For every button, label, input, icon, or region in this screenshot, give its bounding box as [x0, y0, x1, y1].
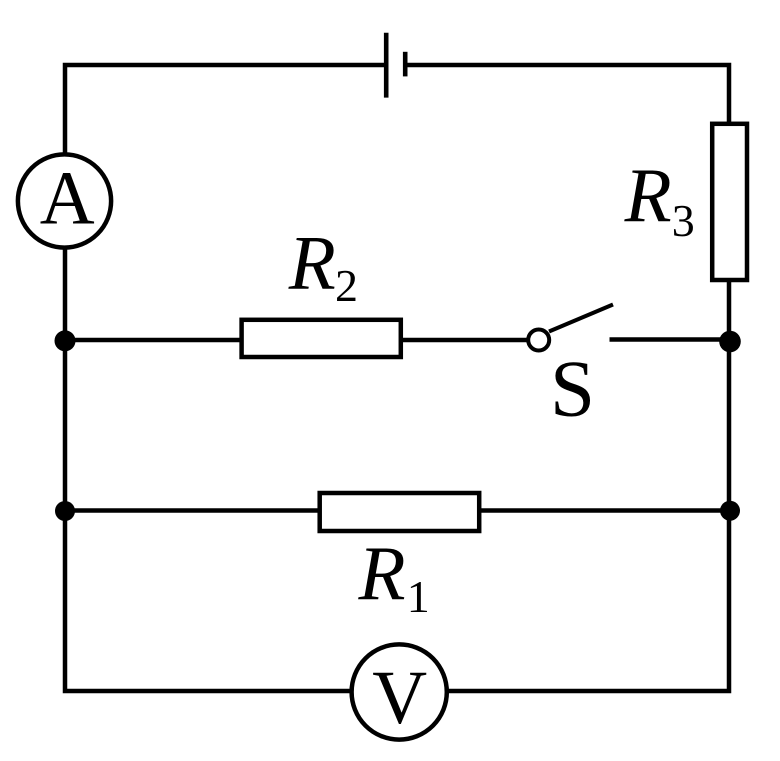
node junction dot: right middle	[719, 331, 741, 353]
svg-text:A: A	[40, 157, 95, 241]
switch S arm (open)	[549, 305, 613, 332]
wire: bottom from voltmeter to bottom-right corner, right vertical up to R3 bottom	[447, 280, 729, 691]
svg-text:R: R	[288, 220, 336, 306]
svg-text:V: V	[372, 656, 427, 740]
wire: top-right horizontal from battery to right vertical, down to R3 top	[405, 65, 729, 124]
voltmeter U-V circle	[352, 644, 447, 739]
resistor R1 body	[320, 493, 480, 531]
node junction dot: right lower	[720, 501, 740, 521]
node junction dot: left middle	[55, 330, 76, 351]
battery short plate (negative)	[403, 52, 408, 77]
resistor R2 body	[242, 320, 401, 357]
svg-text:R: R	[358, 530, 406, 616]
svg-text:R: R	[624, 152, 672, 238]
ammeter U-A circle	[18, 154, 111, 247]
wire: top-left horizontal (battery negative lead) and left vertical down to ammeter	[65, 65, 386, 156]
svg-text:3: 3	[672, 195, 695, 246]
svg-text:1: 1	[407, 571, 430, 622]
switch S pivot circle	[528, 330, 549, 351]
wire: lower branch through R1 between nodes	[65, 508, 729, 513]
svg-text:S: S	[550, 344, 595, 434]
wire: left vertical from ammeter down to bottom-left corner, bottom to voltmeter	[65, 246, 352, 691]
battery long plate (positive)	[384, 33, 389, 98]
wire: middle branch right segment from switch to right node	[610, 337, 730, 342]
wire: middle branch from left node through R2 to switch pivot	[65, 338, 527, 343]
resistor R3 body	[712, 124, 747, 280]
svg-text:2: 2	[335, 260, 358, 311]
node junction dot: left lower	[55, 501, 75, 521]
